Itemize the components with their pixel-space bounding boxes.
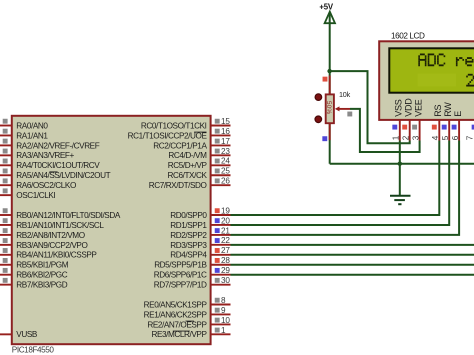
pin RB1/AN10/INT1/SCK/SCL (left) (0, 218, 104, 230)
pin RE1/AN6/CK2SPP #9 (right) (144, 306, 231, 320)
pin RC1/T1OSI/CCP2/UOE #16 (right) (128, 127, 231, 141)
wire RD1 to LCD RW (231, 141, 450, 225)
LCD pin RW #5 (441, 102, 453, 141)
svg-text:30: 30 (221, 276, 230, 285)
svg-text:OSC1/CLKI: OSC1/CLKI (16, 191, 55, 200)
svg-text:RB7/KBI3/PGD: RB7/KBI3/PGD (16, 281, 67, 290)
svg-text:19: 19 (221, 206, 230, 215)
svg-text:RC7/RX/DT/SDO: RC7/RX/DT/SDO (149, 181, 207, 190)
pin RD3/SPP3 #22 (right) (170, 236, 230, 250)
svg-text:22: 22 (221, 236, 230, 245)
svg-text:RE0/AN5/CK1SPP: RE0/AN5/CK1SPP (144, 300, 208, 309)
pin RC0/T1OSO/T1CKI #15 (right) (141, 117, 231, 130)
LCD pin E #6 (451, 111, 463, 141)
svg-text:RC1/T1OSI/CCP2/UOE: RC1/T1OSI/CCP2/UOE (128, 131, 208, 140)
RV1 knob bottom (315, 116, 322, 123)
wire ground rail horizontal (330, 163, 474, 165)
wire RD4 off right edge (231, 254, 474, 256)
svg-text:RC6/TX/CK: RC6/TX/CK (168, 171, 208, 180)
pin RA6/OSC2/CLKO (left) (0, 178, 76, 190)
pin RE3/MCLR/VPP #1 (right) (151, 326, 230, 339)
RV1 stub bottom (329, 124, 331, 141)
RV1 stub top (329, 76, 331, 95)
pin RA5/AN4/SS/LVDIN/C2OUT (left) (0, 169, 111, 181)
wire RD0 to LCD RS (231, 141, 440, 216)
pin RD4/SPP4 #27 (right) (170, 246, 230, 260)
svg-text:5: 5 (441, 135, 450, 140)
svg-text:RD3/SPP3: RD3/SPP3 (170, 241, 207, 250)
svg-text:29: 29 (221, 266, 230, 275)
pin RD6/SPP6/P1C #29 (right) (154, 266, 231, 280)
svg-text:RD4/SPP4: RD4/SPP4 (170, 251, 207, 260)
svg-text:1: 1 (221, 326, 226, 335)
pin RB7/KBI3/PGD (left) (0, 278, 68, 290)
svg-text:23: 23 (221, 147, 230, 156)
pin VUSB (left) (0, 330, 38, 339)
svg-text:RA4/T0CKI/C1OUT/RCV: RA4/T0CKI/C1OUT/RCV (16, 161, 100, 170)
pin RA2/AN2/VREF-/CVREF (left) (0, 139, 100, 151)
RV1 10k pot body (325, 94, 334, 123)
pin RA3/AN3/VREF+ (left) (0, 149, 75, 161)
svg-text:RC0/T1OSO/T1CKI: RC0/T1OSO/T1CKI (141, 121, 207, 130)
svg-text:2: 2 (402, 135, 411, 140)
wire RD6 off right edge (231, 274, 474, 276)
RV1 state square top (323, 77, 328, 82)
svg-text:RA0/AN0: RA0/AN0 (16, 121, 48, 130)
LCD pin VSS #1 (392, 99, 404, 140)
pin RC5/D+/VP #24 (right) (168, 157, 231, 171)
svg-text:8: 8 (221, 296, 226, 305)
svg-text:VSS: VSS (394, 99, 404, 117)
svg-text:+5V: +5V (319, 3, 333, 12)
svg-text:RB1/AN10/INT1/SCK/SCL: RB1/AN10/INT1/SCK/SCL (16, 221, 104, 230)
svg-text:RA2/AN2/VREF-/CVREF: RA2/AN2/VREF-/CVREF (16, 141, 99, 150)
svg-text:RB3/AN9/CCP2/VPO: RB3/AN9/CCP2/VPO (16, 241, 87, 250)
svg-text:RS: RS (433, 105, 443, 117)
svg-text:15: 15 (221, 117, 230, 126)
LCD pin VEE #3 (411, 99, 423, 140)
pin RE2/AN7/OESPP #10 (right) (147, 316, 230, 330)
pin OSC1/CLKI (left) (0, 188, 55, 200)
LCD line2 ghost cells (418, 74, 457, 87)
pin RB3/AN9/CCP2/VPO (left) (0, 238, 87, 250)
svg-text:RB0/AN12/INT0/FLT0/SDI/SDA: RB0/AN12/INT0/FLT0/SDI/SDA (16, 211, 121, 220)
LCD pin VDD #2 (402, 98, 414, 141)
RV1 wiper arrow (335, 106, 350, 111)
overline RA5 SS (49, 171, 57, 173)
overline RC1 UOE (194, 131, 206, 133)
pin RB5/KBI1/PGM (left) (0, 258, 69, 270)
svg-text:27: 27 (221, 246, 230, 255)
svg-text:RD1/SPP1: RD1/SPP1 (170, 221, 207, 230)
svg-text:RD2/SPP2: RD2/SPP2 (170, 231, 207, 240)
pin RD2/SPP2 #21 (right) (170, 226, 230, 240)
svg-text:PIC18F4550: PIC18F4550 (12, 345, 55, 354)
svg-text:10: 10 (221, 316, 230, 325)
svg-text:RE1/AN6/CK2SPP: RE1/AN6/CK2SPP (144, 310, 208, 319)
node junction VSS/ground (398, 162, 402, 166)
svg-text:4: 4 (431, 135, 440, 140)
svg-text:RD7/SPP7/P1D: RD7/SPP7/P1D (154, 281, 207, 290)
svg-text:21: 21 (221, 226, 230, 235)
svg-text:RB5/KBI1/PGM: RB5/KBI1/PGM (16, 261, 68, 270)
pin RB0/AN12/INT0/FLT0/SDI/SDA (left) (0, 208, 121, 220)
svg-text:1602 LCD: 1602 LCD (391, 32, 425, 41)
pin RB4/AN11/KBI0/CSSPP (left) (0, 248, 97, 260)
ground symbol (390, 196, 411, 204)
LCD body (379, 41, 474, 120)
overline RE3 MCLR (173, 330, 190, 332)
svg-text:RW: RW (443, 102, 453, 117)
svg-text:RC2/CCP1/P1A: RC2/CCP1/P1A (153, 141, 207, 150)
RV1 knob top (315, 94, 322, 101)
+5V power symbol (319, 3, 335, 24)
svg-text:RB4/AN11/KBI0/CSSPP: RB4/AN11/KBI0/CSSPP (16, 251, 97, 260)
svg-text:RD5/SPP5/P1B: RD5/SPP5/P1B (154, 261, 207, 270)
LCD pin D0 #7 partial at edge (466, 125, 474, 141)
pin RA4/T0CKI/C1OUT/RCV (left) (0, 159, 100, 171)
wire RD3 off right edge (231, 244, 474, 246)
svg-text:RD0/SPP0: RD0/SPP0 (170, 211, 207, 220)
svg-text:28: 28 (221, 256, 230, 265)
LCD pin RS #4 (431, 105, 443, 141)
pin RC2/CCP1/P1A #17 (right) (153, 137, 230, 151)
overline RE2 OE (186, 320, 194, 322)
pin RC7/RX/DT/SDO #26 (right) (149, 177, 231, 191)
LCD screen (389, 48, 474, 92)
svg-text:RC4/D-/VM: RC4/D-/VM (168, 151, 207, 160)
svg-text:VDD: VDD (404, 98, 414, 117)
svg-text:7: 7 (466, 135, 474, 140)
pin RC6/TX/CK #25 (right) (168, 167, 231, 181)
pin RE0/AN5/CK1SPP #8 (right) (144, 296, 231, 310)
wire RV1 wiper to LCD VEE (350, 109, 420, 152)
svg-text:16: 16 (221, 127, 230, 136)
wire RD5 off right edge (231, 264, 474, 266)
svg-text:RA3/AN3/VREF+: RA3/AN3/VREF+ (16, 151, 74, 160)
svg-text:1: 1 (392, 135, 401, 140)
svg-text:RA1/AN1: RA1/AN1 (16, 131, 48, 140)
RV1 state square bottom (322, 136, 327, 141)
svg-text:RD6/SPP6/P1C: RD6/SPP6/P1C (154, 271, 207, 280)
wire LCD VSS down to ground (399, 141, 401, 196)
svg-text:RA6/OSC2/CLKO: RA6/OSC2/CLKO (16, 181, 76, 190)
pin RA0/AN0 (left) (0, 119, 48, 131)
pin RD1/SPP1 #20 (right) (170, 216, 230, 230)
svg-text:26: 26 (221, 177, 230, 186)
svg-text:RE3/MCLR/VPP: RE3/MCLR/VPP (151, 330, 207, 339)
IC U1 PIC18F4550 body (12, 116, 211, 355)
pin RB2/AN8/INT2/VMO (left) (0, 228, 85, 240)
svg-text:RB6/KBI2/PGC: RB6/KBI2/PGC (16, 271, 67, 280)
svg-text:VUSB: VUSB (16, 330, 38, 339)
LCD text line1 ADC re (418, 54, 474, 67)
LCD text line2 value 2 (466, 74, 474, 87)
svg-text:50%: 50% (325, 101, 332, 114)
wire VDD net to LCD pin2 (330, 71, 410, 143)
wire +5V rail vertical (329, 13, 331, 164)
node junction +5V/VDD branch (327, 69, 331, 73)
wire RD2 to LCD E (231, 141, 460, 235)
pin RD5/SPP5/P1B #28 (right) (154, 256, 230, 270)
pin RD7/SPP7/P1D #30 (right) (154, 276, 231, 290)
svg-text:RB2/AN8/INT2/VMO: RB2/AN8/INT2/VMO (16, 231, 84, 240)
svg-text:RE2/AN7/OESPP: RE2/AN7/OESPP (147, 320, 207, 329)
svg-text:10k: 10k (339, 90, 351, 99)
svg-text:25: 25 (221, 167, 230, 176)
svg-text:17: 17 (221, 137, 230, 146)
svg-text:3: 3 (411, 135, 420, 140)
svg-text:VEE: VEE (413, 99, 423, 117)
pin RD0/SPP0 #19 (right) (170, 206, 230, 220)
pin RC4/D-/VM #23 (right) (168, 147, 230, 160)
svg-text:24: 24 (221, 157, 230, 166)
pin RA1/AN1 (left) (0, 129, 48, 141)
svg-text:9: 9 (221, 306, 226, 315)
RV1 state square wiper (347, 112, 352, 117)
svg-text:RA5/AN4/SS/LVDIN/C2OUT: RA5/AN4/SS/LVDIN/C2OUT (16, 171, 110, 180)
svg-text:20: 20 (221, 216, 230, 225)
pin RB6/KBI2/PGC (left) (0, 268, 68, 280)
svg-text:6: 6 (451, 135, 460, 140)
svg-text:E: E (453, 111, 463, 117)
svg-text:RC5/D+/VP: RC5/D+/VP (168, 161, 208, 170)
